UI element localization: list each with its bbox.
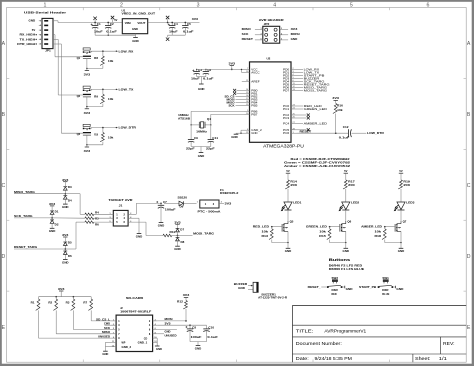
wire DTR_HIGH to Q3 xyxy=(53,44,83,133)
ground LED2 column xyxy=(343,243,350,254)
svg-text:MOSI: MOSI xyxy=(165,318,173,321)
ground LED3 column xyxy=(398,243,405,254)
U2 right pins xyxy=(283,67,297,135)
svg-text:AVR HEADER: AVR HEADER xyxy=(259,18,285,22)
power 3V3 Q3 xyxy=(84,147,91,153)
svg-text:SCK: SCK xyxy=(242,32,249,36)
svg-text:10k: 10k xyxy=(108,59,114,63)
svg-text:3V3: 3V3 xyxy=(58,287,65,291)
net label 3V3 (JP2) xyxy=(291,27,298,31)
svg-text:B: B xyxy=(2,112,6,118)
svg-text:3: 3 xyxy=(113,324,114,326)
fuse F1 RXEF025-2 PTC xyxy=(197,188,239,214)
svg-text:REV:: REV: xyxy=(443,341,455,346)
ground U2 bypass caps xyxy=(197,77,206,91)
wire Q2 3V3 rail xyxy=(86,106,103,109)
svg-text:E: E xyxy=(2,325,6,331)
wire SCK_TARG row xyxy=(14,217,85,219)
pull-up resistor bank 3V3 rail xyxy=(39,287,92,298)
crystal Q4 16MHz xyxy=(178,113,212,134)
net label GND (J2 pin6) xyxy=(157,330,177,334)
net label CMD (J2) xyxy=(104,323,116,326)
pushbutton SW1 BLUE xyxy=(378,277,393,296)
svg-text:C5: C5 xyxy=(187,22,191,26)
wire J1 pin2 to power input xyxy=(128,203,160,214)
svg-text:RESET: RESET xyxy=(242,37,254,41)
net label UNUSED (J2 pin8) xyxy=(157,334,176,338)
net label RED_LED (U2) xyxy=(297,104,323,108)
svg-text:RED_LED: RED_LED xyxy=(253,225,269,229)
svg-text:5: 5 xyxy=(113,328,114,330)
svg-text:D7: D7 xyxy=(180,228,184,232)
svg-text:R17: R17 xyxy=(348,179,355,183)
svg-text:LED1: LED1 xyxy=(293,201,302,205)
net label AMBER_LED (U2) xyxy=(297,122,329,126)
svg-text:1: 1 xyxy=(113,320,114,322)
svg-text:Q5: Q5 xyxy=(290,220,294,224)
svg-text:C8: C8 xyxy=(192,325,196,329)
svg-text:MISO: MISO xyxy=(102,331,110,334)
svg-text:13: 13 xyxy=(112,345,114,347)
transistor Q1 level shifter xyxy=(77,48,92,69)
resistor R1 xyxy=(31,297,40,311)
svg-text:R4: R4 xyxy=(95,210,99,214)
net label 3V3 at rail end xyxy=(192,17,199,21)
capacitor C8 100uF xyxy=(185,325,201,341)
resistor R11 xyxy=(163,230,178,237)
net label START_PB xyxy=(359,285,378,289)
svg-text:2: 2 xyxy=(130,213,131,215)
net label LOW_DTR xyxy=(367,131,385,135)
svg-text:GND: GND xyxy=(291,37,298,41)
no-connect PB1 xyxy=(233,92,244,95)
connector JP2 AVR HEADER xyxy=(255,18,288,43)
power 5V LED2 xyxy=(344,169,348,180)
svg-text:GND: GND xyxy=(195,346,202,350)
svg-text:5V: 5V xyxy=(286,169,289,173)
net label MOSI_TARG (clamp) xyxy=(193,232,215,236)
svg-text:D: D xyxy=(467,254,471,260)
wire U2 bypass rail xyxy=(197,68,232,70)
svg-text:Red = CSSMF-RJF-CT0W0BB2: Red = CSSMF-RJF-CT0W0BB2 xyxy=(291,157,351,161)
net label MISO (PB4) xyxy=(227,101,245,104)
svg-text:A: A xyxy=(2,41,6,47)
net label BUZZER (U2) xyxy=(297,76,321,80)
LED part number notes xyxy=(284,157,351,168)
svg-text:2: 2 xyxy=(120,2,123,8)
svg-text:R5: R5 xyxy=(95,217,99,221)
svg-text:3V3: 3V3 xyxy=(183,293,190,297)
svg-text:PTC - 500mA: PTC - 500mA xyxy=(198,209,221,213)
svg-text:RESET_: RESET_ xyxy=(308,285,321,289)
net label RESET_TARG (U2) xyxy=(297,82,331,86)
svg-text:USB-Serial Header: USB-Serial Header xyxy=(24,11,67,15)
svg-text:R12: R12 xyxy=(177,300,184,303)
svg-text:C: C xyxy=(467,183,471,189)
svg-text:UNUSED: UNUSED xyxy=(165,335,177,338)
svg-text:9/24/18 5:35 PM: 9/24/18 5:35 PM xyxy=(315,356,353,361)
buzzer BUZZER1 AT-1223-TWT-5V-2-R xyxy=(253,282,287,299)
svg-text:5V: 5V xyxy=(114,18,117,22)
capacitor C2 0.1uF xyxy=(105,22,117,36)
svg-text:BLUE: BLUE xyxy=(382,293,389,296)
ground clamp D4 xyxy=(62,204,69,209)
resistor R9 10k xyxy=(94,89,114,106)
net label LOW_DTR xyxy=(119,126,137,130)
svg-text:7: 7 xyxy=(113,333,114,335)
svg-text:TARGET AVR: TARGET AVR xyxy=(109,198,134,202)
net label GND (JP2) xyxy=(291,37,298,41)
wire RESET_TARG row xyxy=(14,222,85,249)
resistor R8 10k xyxy=(94,51,114,68)
svg-text:22pF: 22pF xyxy=(206,147,215,151)
svg-text:GND: GND xyxy=(285,249,292,253)
wire R2 to MISO xyxy=(56,310,111,333)
wire LOW_TX drain xyxy=(91,89,118,91)
power 3V3 clamp D7 xyxy=(174,220,181,228)
svg-text:PC1: PC1 xyxy=(283,107,290,111)
wire R1 to UNUSED pin9 xyxy=(39,310,112,338)
diode D1 xyxy=(50,209,59,218)
svg-text:0.1uF: 0.1uF xyxy=(203,76,214,80)
net label GND (buzzer) xyxy=(238,286,253,290)
resistor R13 10k xyxy=(262,227,274,243)
svg-text:Q4: Q4 xyxy=(207,117,211,121)
svg-text:GND: GND xyxy=(343,249,350,253)
wire R17 to LED2 xyxy=(345,189,347,202)
net label LOW_RX (U2) xyxy=(297,67,320,71)
net label RX_HIGH (JP1 pin4) xyxy=(20,33,37,37)
capacitor C6 0.1uF (U2 bypass) xyxy=(203,68,214,80)
svg-text:3V3: 3V3 xyxy=(84,73,91,77)
svg-text:Q7: Q7 xyxy=(403,220,407,224)
net label MISO_TARG (U2) xyxy=(297,85,328,89)
supply flag 5V label xyxy=(111,16,118,23)
svg-text:SCK: SCK xyxy=(104,327,110,330)
svg-text:3V3: 3V3 xyxy=(229,62,236,66)
svg-text:5: 5 xyxy=(350,2,353,8)
svg-text:10067847-001RLF: 10067847-001RLF xyxy=(120,310,152,314)
resistor R6 xyxy=(85,221,99,227)
svg-text:LOW_RX: LOW_RX xyxy=(119,49,135,53)
svg-text:SCK: SCK xyxy=(229,104,235,107)
svg-text:R1: R1 xyxy=(31,301,35,305)
power 3V3 R12 xyxy=(183,293,190,301)
svg-text:GND: GND xyxy=(198,154,205,158)
svg-text:3V3: 3V3 xyxy=(84,111,91,115)
svg-text:GND_1: GND_1 xyxy=(138,342,148,345)
resistor R12 xyxy=(177,300,187,321)
svg-text:D6R: D6R xyxy=(332,289,338,292)
wire Q1 3V3 rail xyxy=(86,68,103,71)
svg-text:C12: C12 xyxy=(343,125,349,129)
diode D8 xyxy=(176,236,185,247)
net label SD_CS_L (J2) xyxy=(96,318,111,321)
svg-text:D8: D8 xyxy=(181,240,185,244)
voltage regulator U1 VREG_IN_GND_OUT xyxy=(122,8,156,33)
svg-text:10k: 10k xyxy=(262,229,269,233)
svg-text:PB7: PB7 xyxy=(251,112,258,116)
svg-text:SD_CS_L: SD_CS_L xyxy=(96,318,111,321)
svg-text:VREG_IN_GND_OUT: VREG_IN_GND_OUT xyxy=(122,12,156,16)
svg-text:C11: C11 xyxy=(212,136,218,140)
wire MISO_TARG row xyxy=(14,194,85,215)
svg-text:6: 6 xyxy=(155,328,156,330)
svg-text:D4: D4 xyxy=(68,199,72,203)
wire 3V3 row (J2 pin4) xyxy=(157,323,206,327)
capacitor C10 0.1uF xyxy=(203,325,218,341)
diode D5 xyxy=(63,240,72,249)
svg-text:GND: GND xyxy=(136,235,143,239)
svg-text:PC3: PC3 xyxy=(283,116,290,120)
svg-text:D3: D3 xyxy=(68,185,72,189)
svg-text:R9: R9 xyxy=(94,94,98,98)
svg-text:R11: R11 xyxy=(170,230,176,234)
transistor Q3 level shifter xyxy=(77,124,92,145)
svg-text:10k: 10k xyxy=(108,135,114,139)
net label AMBER_LED (gate) xyxy=(361,225,386,229)
svg-text:11: 11 xyxy=(112,341,114,343)
resistor R14 200 xyxy=(285,179,298,189)
svg-text:RX_HIGH: RX_HIGH xyxy=(20,33,36,37)
net label BUZZER xyxy=(234,282,253,286)
svg-text:Buttons: Buttons xyxy=(329,258,350,262)
wire PB6 to crystal xyxy=(191,111,244,125)
svg-text:5: 5 xyxy=(109,221,110,223)
svg-text:Document Number:: Document Number: xyxy=(296,341,342,346)
svg-text:8: 8 xyxy=(155,333,156,335)
svg-text:R8: R8 xyxy=(94,56,98,60)
svg-text:C9: C9 xyxy=(194,136,198,140)
title block xyxy=(293,305,467,362)
svg-text:2: 2 xyxy=(281,28,282,30)
svg-text:AVCC: AVCC xyxy=(251,70,259,74)
svg-text:GND: GND xyxy=(156,348,162,351)
svg-text:5V: 5V xyxy=(399,169,402,173)
svg-text:LOW_TX: LOW_TX xyxy=(119,88,135,92)
svg-text:RXEF025-2: RXEF025-2 xyxy=(220,191,239,195)
capacitor C3 10uF (U2 bypass) xyxy=(191,68,203,80)
svg-text:SCK_TARG: SCK_TARG xyxy=(14,214,33,218)
svg-text:AVRProgrammerV1: AVRProgrammerV1 xyxy=(324,328,366,333)
LED LED1 xyxy=(281,201,302,212)
transistor Q7 xyxy=(385,220,407,243)
svg-text:CD: CD xyxy=(144,337,148,340)
wire C12 to LOW_DTR xyxy=(352,132,367,134)
svg-text:R2: R2 xyxy=(48,301,52,305)
svg-text:C2: C2 xyxy=(110,22,114,26)
svg-text:GND: GND xyxy=(174,247,181,251)
svg-text:6: 6 xyxy=(426,2,429,8)
svg-text:VIN: VIN xyxy=(125,22,131,25)
svg-text:GND_2: GND_2 xyxy=(122,346,132,349)
svg-text:200: 200 xyxy=(403,183,410,187)
resistor R16 10k pull-up xyxy=(333,103,344,133)
svg-text:2: 2 xyxy=(155,320,156,322)
supply flag 5V at C1 xyxy=(93,17,96,23)
svg-text:GND: GND xyxy=(102,353,108,356)
svg-text:D6R60 F1 LFS BLUE: D6R60 F1 LFS BLUE xyxy=(329,267,365,271)
svg-text:D5: D5 xyxy=(68,240,72,244)
svg-text:10k: 10k xyxy=(108,97,114,101)
svg-text:AMBER_LED: AMBER_LED xyxy=(361,225,382,229)
diode D6 xyxy=(63,249,72,259)
wire 5V rail from JP1 to U1 VIN xyxy=(53,21,122,23)
svg-text:22pF: 22pF xyxy=(186,147,195,151)
svg-text:3V3: 3V3 xyxy=(49,202,56,206)
net label LOW_RX xyxy=(119,49,135,53)
wire RESET net (U2 PC6) xyxy=(297,129,349,134)
capacitor C11 22pF xyxy=(206,125,219,151)
wire input cap ground bus xyxy=(95,35,135,36)
wire MOSI row (J2 pin2) xyxy=(157,318,186,322)
power 5V LED1 xyxy=(286,169,290,180)
LED LED3 xyxy=(394,201,415,212)
svg-text:1: 1 xyxy=(43,2,46,8)
microcontroller U2 ATMEGA328P-PU xyxy=(250,57,304,149)
svg-text:10k: 10k xyxy=(375,229,382,233)
svg-text:R13: R13 xyxy=(262,234,269,238)
svg-text:9: 9 xyxy=(113,337,114,339)
no-connect U2 PC pin xyxy=(297,128,310,131)
svg-text:6: 6 xyxy=(281,38,282,40)
wire R7 to SD_CS_L xyxy=(91,310,111,321)
wire LED3 to Q7 drain xyxy=(400,210,402,221)
svg-text:1: 1 xyxy=(197,202,198,204)
svg-text:RESET_TARG: RESET_TARG xyxy=(14,245,38,249)
wire R3 to SCK xyxy=(73,310,111,329)
ground U2 GND pins xyxy=(231,130,244,139)
wire R14 to LED1 xyxy=(287,189,289,202)
U2 left pins xyxy=(245,67,263,135)
diode D4 xyxy=(63,194,72,204)
ground SD bypass caps xyxy=(190,342,207,351)
svg-text:Amber = CSSMF-AJE-CU0V0542: Amber = CSSMF-AJE-CU0V0542 xyxy=(284,164,351,168)
net label SCK (J2) xyxy=(104,327,110,330)
net label LOW_TX (U2) xyxy=(297,70,320,74)
svg-text:LED3: LED3 xyxy=(406,201,415,205)
net label MOSI_TARG (U2) xyxy=(297,88,328,92)
svg-text:10k: 10k xyxy=(337,108,343,112)
svg-text:3V3: 3V3 xyxy=(62,178,69,182)
svg-text:3: 3 xyxy=(109,217,110,219)
ground J2 CD xyxy=(155,346,162,351)
svg-text:CMD: CMD xyxy=(104,323,110,326)
svg-text:START_PB: START_PB xyxy=(359,285,376,289)
no-connect PB0 xyxy=(233,89,244,92)
connector J1 TARGET AVR xyxy=(94,198,134,226)
no-connect U2 PC pin xyxy=(297,114,310,117)
svg-text:Q2: Q2 xyxy=(77,94,81,98)
wire LOW_DTR drain xyxy=(91,127,118,129)
svg-text:4: 4 xyxy=(273,2,276,8)
svg-text:RED: RED xyxy=(332,293,337,296)
transistor Q6 xyxy=(330,220,352,243)
J2 WP GND_2 pins xyxy=(105,341,131,351)
net label MOSI (JP2) xyxy=(291,32,300,36)
svg-text:D6R: D6R xyxy=(382,289,388,292)
svg-text:TX_HIGH: TX_HIGH xyxy=(20,37,36,41)
svg-text:16MHz: 16MHz xyxy=(178,113,190,117)
svg-text:C3: C3 xyxy=(198,68,202,72)
power 3V3 R16 xyxy=(332,96,339,104)
svg-text:GND: GND xyxy=(238,286,245,290)
J2 CD GND_1 pins xyxy=(138,337,158,346)
svg-text:3V3: 3V3 xyxy=(62,233,69,237)
svg-text:12: 12 xyxy=(154,341,156,343)
svg-text:Q1: Q1 xyxy=(77,56,81,60)
net label DTR_HIGH (JP1 pin6) xyxy=(17,42,37,46)
ground clamp D8 xyxy=(174,246,181,251)
svg-text:TITLE:: TITLE: xyxy=(296,328,313,333)
svg-text:GND: GND xyxy=(346,288,353,291)
svg-text:5V: 5V xyxy=(344,169,347,173)
svg-text:6: 6 xyxy=(130,221,131,223)
svg-text:A: A xyxy=(467,41,471,47)
net label GND (JP1 pin1) xyxy=(29,19,36,23)
resistor R15 10k xyxy=(319,227,331,243)
power 3V3 Q1 xyxy=(84,71,91,77)
capacitor C5 0.1uF xyxy=(182,22,194,36)
ground J2 WP xyxy=(102,351,108,356)
capacitor C7 100uF xyxy=(156,200,176,223)
connector J2 SD-CARD xyxy=(111,296,157,352)
svg-text:UNUSED: UNUSED xyxy=(98,336,110,339)
svg-text:R18: R18 xyxy=(375,234,382,238)
wire LED2 to Q6 drain xyxy=(345,210,347,221)
svg-text:PD7: PD7 xyxy=(283,88,290,92)
net label TX_HIGH (JP1 pin5) xyxy=(20,37,37,41)
svg-text:GND: GND xyxy=(62,260,69,264)
svg-text:GND: GND xyxy=(29,19,36,23)
svg-text:5: 5 xyxy=(260,38,261,40)
svg-text:D6R40 F2 LFS RED: D6R40 F2 LFS RED xyxy=(329,263,362,267)
wire Q7 source rail xyxy=(385,242,402,243)
transistor Q5 xyxy=(272,220,294,243)
wire TX_HIGH to Q2 xyxy=(53,39,83,95)
svg-text:Q6: Q6 xyxy=(347,220,351,224)
svg-text:WP: WP xyxy=(122,341,126,344)
svg-text:16MHz: 16MHz xyxy=(196,130,208,134)
resistor R2 xyxy=(48,297,57,311)
ground C7 xyxy=(158,223,165,228)
svg-text:3V3: 3V3 xyxy=(165,323,172,326)
svg-text:10uF: 10uF xyxy=(191,76,200,80)
svg-text:GND: GND xyxy=(251,131,257,135)
svg-text:3V3: 3V3 xyxy=(174,220,181,224)
net label RESET_ xyxy=(308,285,327,289)
ground clamp D6 xyxy=(62,259,69,264)
net label SCK (JP2) xyxy=(242,32,249,36)
resistor R3 xyxy=(66,297,75,311)
svg-text:R15: R15 xyxy=(319,234,326,238)
net label MISO (JP2) xyxy=(242,27,252,31)
svg-text:MOSI: MOSI xyxy=(291,32,300,36)
svg-text:GND: GND xyxy=(49,229,56,233)
svg-text:PC4: PC4 xyxy=(283,122,290,126)
svg-text:ATMEGA328P-PU: ATMEGA328P-PU xyxy=(263,144,304,149)
svg-text:R7: R7 xyxy=(83,301,87,305)
svg-text:0.1uF: 0.1uF xyxy=(207,335,218,339)
net label MOSI (PB3) xyxy=(227,98,245,101)
svg-text:GND: GND xyxy=(158,224,165,228)
svg-text:PB5: PB5 xyxy=(251,103,258,107)
diode D7 xyxy=(176,228,185,237)
svg-text:D1: D1 xyxy=(55,209,59,213)
net label 3V3 (after F1) xyxy=(225,201,232,205)
wire PB7 to crystal xyxy=(211,114,245,125)
capacitor C1 10uF xyxy=(91,22,103,36)
